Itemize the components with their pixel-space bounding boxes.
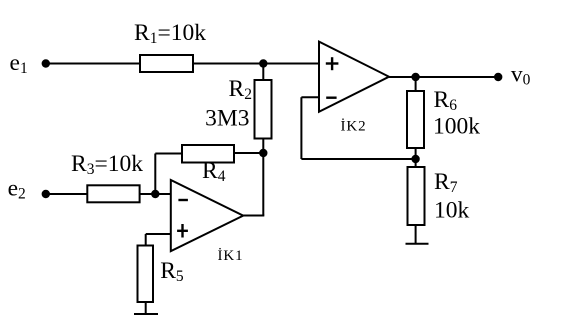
resistor R7 <box>408 167 425 225</box>
resistor R2 <box>255 80 272 139</box>
IK2 plus input symbol <box>326 62 339 64</box>
resistor R6 <box>407 91 424 148</box>
op-amp U1 IK1 triangle <box>171 180 243 251</box>
terminal dot e2 <box>42 190 50 198</box>
wire IK2 feedback to node C <box>301 158 415 160</box>
wire IK1 + input horizontal <box>146 233 171 235</box>
wire IK1 output to vertical riser <box>243 215 264 217</box>
svg-text:v0: v0 <box>511 62 531 89</box>
wire IK2 feedback vertical <box>300 97 302 159</box>
wire R7 bottom to ground <box>415 225 417 244</box>
node C junction dot <box>411 155 419 163</box>
svg-text:e1: e1 <box>10 50 28 77</box>
ground bar under R5 <box>134 313 158 315</box>
node A junction dot <box>259 59 267 67</box>
resistor R1 <box>140 55 193 72</box>
wire node B down to IK1 output level <box>262 153 264 216</box>
wire IK2 - input horizontal <box>301 96 319 98</box>
wire down to R5 top <box>145 234 147 246</box>
ground bar under R7 <box>406 243 429 245</box>
wire IK2 output to v0 <box>389 76 498 78</box>
resistor R5 <box>138 246 154 303</box>
wire node D to R6 top <box>415 77 417 91</box>
svg-text:R5: R5 <box>160 258 184 285</box>
svg-text:R7: R7 <box>434 169 458 196</box>
resistor R4 <box>182 145 234 163</box>
svg-text:R3=10k: R3=10k <box>71 151 143 178</box>
svg-text:100k: 100k <box>433 114 480 140</box>
svg-text:R2: R2 <box>229 76 252 103</box>
svg-text:İK1: İK1 <box>218 248 244 264</box>
wire R5 bottom to ground <box>145 302 147 314</box>
node E junction dot <box>151 190 159 198</box>
resistor R3 <box>87 185 139 202</box>
wire node E up <box>154 154 156 195</box>
terminal dot v0 <box>494 73 502 81</box>
svg-text:3M3: 3M3 <box>205 106 249 132</box>
wire e2 to R3 <box>46 193 88 195</box>
op-amp U2 IK2 triangle <box>319 42 389 112</box>
terminal dot e1 <box>42 59 50 67</box>
wire R6 bottom to R7 top through node C <box>415 148 417 167</box>
wire e1 to R1 <box>46 63 140 65</box>
svg-text:R6: R6 <box>434 87 458 114</box>
svg-text:e2: e2 <box>8 176 26 203</box>
IK1 minus input symbol <box>178 199 188 201</box>
wire R3 to IK1 - input <box>140 193 171 195</box>
node B junction dot <box>259 149 267 157</box>
wire R4 right to node B <box>234 152 263 154</box>
wire R1 to IK2 + input <box>193 63 319 65</box>
IK2 minus input symbol <box>326 96 336 98</box>
wire to R4 left <box>155 153 182 155</box>
wire R2 bottom to node B <box>262 139 264 154</box>
node D junction dot <box>411 73 419 81</box>
svg-text:İK2: İK2 <box>341 119 367 135</box>
svg-text:10k: 10k <box>434 198 470 224</box>
IK1 plus input symbol <box>177 230 188 232</box>
wire node A down to R2 top <box>262 64 264 81</box>
svg-text:R1=10k: R1=10k <box>134 20 206 47</box>
